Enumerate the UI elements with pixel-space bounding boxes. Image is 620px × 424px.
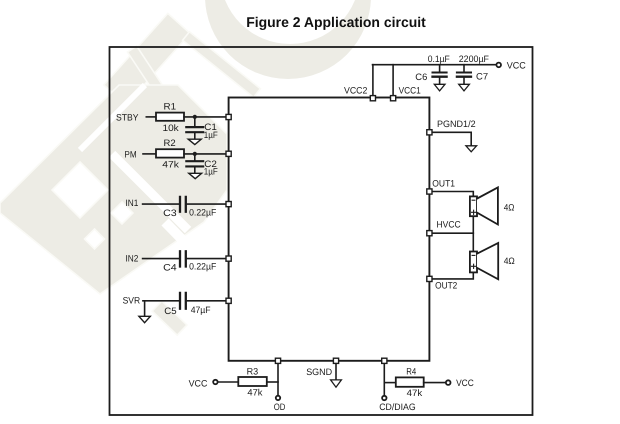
svg-text:4Ω: 4Ω (504, 256, 515, 266)
svg-text:Figure 2 Application circuit: Figure 2 Application circuit (246, 14, 426, 30)
wire VCC to R3 (218, 381, 239, 383)
svg-text:VCC: VCC (507, 60, 526, 70)
ground (C7) (459, 84, 470, 91)
wire SVR ground branch (144, 301, 146, 317)
wire IN1 to C3 (143, 203, 179, 205)
pin IN2 (226, 256, 231, 261)
svg-text:CD/DIAG: CD/DIAG (379, 402, 416, 412)
svg-text:C4: C4 (163, 262, 177, 272)
wire OUT1 to speaker SP1 (433, 192, 474, 197)
ground (C6) (434, 84, 445, 91)
terminal OD (276, 396, 280, 400)
svg-text:OUT1: OUT1 (432, 178, 455, 188)
capacitor C3 (180, 197, 186, 212)
pin SVR (226, 298, 231, 303)
wire C4 to IN2 pin (187, 258, 226, 260)
svg-text:OD: OD (274, 402, 286, 412)
svg-text:0.22µF: 0.22µF (189, 261, 216, 271)
svg-text:SGND: SGND (306, 367, 332, 377)
pin SGND (333, 358, 338, 363)
wire IN2 to C4 (143, 258, 179, 260)
watermark white slashes (decorative) (78, 83, 210, 268)
svg-text:PM: PM (124, 149, 136, 159)
svg-text:47k: 47k (162, 160, 179, 170)
wire R1 to STBY pin (184, 116, 226, 118)
svg-text:47µF: 47µF (191, 305, 211, 315)
svg-text:VCC2: VCC2 (344, 85, 367, 95)
capacitor C5 (180, 293, 186, 309)
wire HVCC pin to speaker node (433, 232, 474, 234)
svg-text:R2: R2 (164, 138, 176, 148)
IC pins (squares) (226, 96, 432, 364)
svg-text:STBY: STBY (116, 112, 139, 122)
pin CD/DIAG (382, 358, 387, 363)
ground (PGND1/2) (466, 146, 477, 152)
wire OD pin down (277, 364, 279, 395)
node junction STBY/C1 (193, 115, 197, 119)
capacitor C2 (186, 154, 203, 173)
watermark (decorative) (0, 0, 371, 335)
svg-text:4Ω: 4Ω (504, 202, 515, 212)
wire C3 to IN1 pin (187, 203, 226, 205)
speaker SP1 (470, 187, 498, 224)
wire SVR to C5 (143, 300, 179, 302)
capacitor C1 (186, 117, 203, 139)
pin IN1 (226, 202, 231, 207)
wire R3 to OD net (267, 381, 278, 383)
resistor R3 (238, 377, 266, 386)
wire CD/DIAG to R4 (384, 382, 396, 384)
terminal VCC (bottom right) (446, 380, 451, 385)
svg-text:PGND1/2: PGND1/2 (437, 119, 476, 129)
svg-text:47k: 47k (407, 388, 423, 398)
capacitor C4 (180, 251, 186, 266)
wire rail to VCC1 pin (392, 65, 394, 95)
wire SP1 to HVCC node (472, 216, 474, 251)
wire STBY to R1 (146, 116, 156, 118)
resistor R1 (156, 113, 184, 121)
IC body (229, 98, 430, 361)
pin VCC2 (370, 96, 375, 101)
pin OUT2 (427, 276, 432, 281)
pin HVCC (427, 231, 432, 236)
svg-text:0.1µF: 0.1µF (428, 54, 450, 64)
svg-text:VCC: VCC (456, 378, 474, 388)
wire SGND to ground (335, 364, 337, 380)
svg-text:OUT2: OUT2 (435, 280, 457, 290)
terminal VCC (bottom left) (213, 380, 217, 384)
ground (SGND) (331, 380, 342, 387)
svg-text:VCC: VCC (189, 379, 208, 389)
svg-text:R3: R3 (247, 366, 259, 376)
ground (C1) (188, 139, 201, 144)
svg-text:1µF: 1µF (204, 130, 218, 140)
svg-text:2200µF: 2200µF (459, 54, 490, 64)
ground (SVR) (139, 316, 150, 322)
wire VCC supply rail (373, 64, 497, 66)
wire R4 to VCC (424, 382, 446, 384)
svg-text:IN1: IN1 (126, 198, 139, 208)
resistor R2 (156, 149, 184, 157)
resistor R4 (396, 377, 424, 386)
pin PGND1/2 (427, 130, 432, 135)
svg-text:HVCC: HVCC (437, 220, 461, 230)
svg-text:C7: C7 (476, 72, 488, 82)
speaker SP2 (470, 243, 498, 279)
wire CD/DIAG pin down (383, 364, 385, 396)
terminal VCC (top) (496, 63, 501, 68)
svg-text:0.22µF: 0.22µF (189, 207, 216, 217)
svg-text:C5: C5 (164, 306, 176, 316)
wire PM to R2 (143, 153, 156, 155)
pin OUT1 (427, 189, 432, 194)
svg-text:VCC1: VCC1 (399, 85, 421, 95)
wire C5 to SVR pin (187, 300, 226, 302)
svg-text:R1: R1 (164, 101, 177, 111)
wire rail to VCC2 pin (372, 65, 374, 95)
pin PM (226, 151, 231, 156)
capacitor C6 (433, 65, 447, 85)
pin STBY (226, 114, 231, 119)
wire SP2 to OUT2 pin (433, 272, 474, 279)
pin VCC1 (391, 96, 396, 101)
svg-text:C3: C3 (163, 208, 177, 218)
pin OD (275, 358, 280, 363)
svg-text:10k: 10k (163, 123, 180, 133)
wire PGND1/2 to ground (433, 132, 471, 146)
svg-text:R4: R4 (406, 366, 416, 376)
wire R2 to PM pin (184, 153, 226, 155)
svg-text:47k: 47k (247, 387, 262, 397)
svg-text:C6: C6 (415, 72, 427, 82)
capacitor C7 (457, 65, 471, 85)
terminal CD/DIAG (382, 396, 386, 400)
node junction PM/C2 (193, 152, 197, 156)
svg-text:IN2: IN2 (126, 253, 139, 263)
svg-text:SVR: SVR (123, 296, 141, 306)
ground (C2) (189, 173, 202, 178)
svg-text:1µF: 1µF (204, 167, 218, 177)
